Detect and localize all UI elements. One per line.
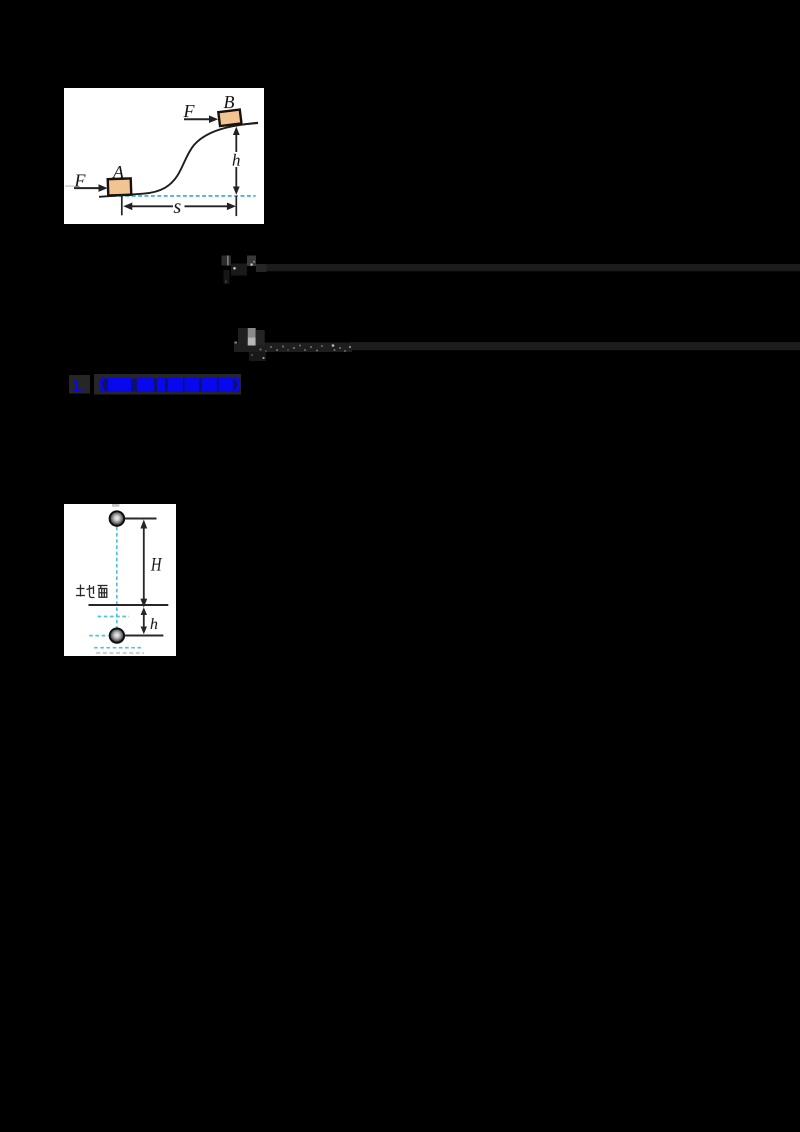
line right of ball 1: [125, 517, 157, 519]
halo box behind blue heading: [94, 374, 241, 395]
remnant speck 3: [253, 261, 255, 263]
tick below block A: [121, 194, 123, 215]
remnant speck d: [276, 349, 278, 351]
dashed horizontal line (upper, below ground): [98, 615, 130, 617]
remnant fraction block lower: [248, 337, 256, 345]
force arrow F (left, faint lead-in): [65, 185, 74, 187]
question number and blue heading row: [66, 370, 251, 398]
ball 2 (lowest position): [110, 628, 124, 642]
blue heading open paren: [101, 377, 105, 392]
svg-text:1.: 1.: [72, 379, 85, 396]
remnant speck k: [316, 350, 318, 352]
block A: [108, 178, 132, 195]
remnant tail speck: [262, 357, 264, 359]
incline extension right of block B: [242, 123, 258, 125]
remnant fraction block upper: [248, 328, 256, 337]
svg-text:F: F: [73, 170, 86, 190]
svg-text:h: h: [150, 616, 158, 633]
dashed reference line (cyan): [113, 195, 256, 197]
remnant tail speck 2: [251, 354, 253, 356]
remnant speck a: [259, 348, 261, 350]
remnant speck b: [265, 350, 267, 352]
blob 4 notch: [183, 378, 185, 392]
remnant speck o: [339, 347, 341, 349]
blue heading blob 2: [137, 378, 154, 393]
remnant speck q: [349, 346, 351, 348]
ball 1 (start position): [110, 511, 125, 526]
gray stub at top: [112, 504, 119, 507]
figure 2: ball dropped from H above ground into well of depth h: [64, 504, 176, 656]
white background panel: [64, 88, 264, 224]
dimension s arrow (right segment with arrowhead): [185, 205, 232, 207]
dimension H arrow: [143, 522, 145, 604]
remnant tail below (descender): [249, 352, 266, 361]
block B: [218, 109, 241, 126]
force arrow F (left): [74, 187, 101, 189]
white background panel: [64, 504, 176, 656]
remnant speck f: [287, 349, 289, 351]
remnant equals speck: [235, 342, 237, 344]
faint gray bottom strip: [96, 652, 144, 654]
figure 1: blocks on S-curve hill: [64, 88, 264, 224]
label 地面 (hand-drawn strokes): [76, 584, 95, 597]
dimension s arrow (left segment with arrowhead): [128, 205, 173, 207]
svg-text:A: A: [112, 162, 125, 182]
remnant smudge: fraction bar block: [222, 256, 232, 266]
remnant box right: [256, 264, 267, 272]
svg-text:B: B: [223, 92, 234, 112]
blue heading blob 3: [157, 378, 165, 393]
text band row 1: [267, 264, 800, 271]
line right of ball 2: [125, 634, 164, 636]
remnant speck m bright: [332, 344, 335, 347]
blue heading close paren: [235, 377, 239, 392]
remnant speck i: [304, 349, 306, 351]
remnant speck p: [344, 350, 346, 352]
remnant textured band under formula: [234, 343, 352, 353]
ground + S-curve path: [99, 122, 258, 196]
blue heading underlay: [100, 379, 240, 392]
remnant white speck 1: [233, 267, 236, 270]
remnant speck l: [321, 345, 323, 347]
remnant dark box right of fraction: [256, 330, 265, 345]
dashed horizontal line left of ball 2: [89, 634, 109, 636]
svg-text:h: h: [232, 150, 241, 169]
force arrow F (top): [184, 118, 211, 120]
remnant speck j: [310, 346, 312, 348]
blue heading blob 5: [202, 378, 233, 393]
remnant tail below: [224, 270, 230, 284]
blue heading blob 1: [108, 378, 131, 393]
remnant dark patch: [231, 264, 247, 276]
tick below h arrow: [235, 196, 237, 216]
dimension h arrow: [143, 610, 145, 632]
blob 5 notch: [217, 378, 219, 392]
dimension h arrow (upper segment): [235, 129, 237, 152]
dimension h arrow (lower segment): [235, 167, 237, 192]
svg-text:F: F: [182, 101, 195, 121]
text band row 2: [350, 342, 800, 350]
remnant speck h: [299, 345, 301, 347]
equation remnant row 2: [230, 324, 800, 366]
svg-text:s: s: [173, 196, 181, 218]
remnant speck c: [270, 346, 272, 348]
remnant vertical light bar: [227, 256, 228, 266]
equation remnant row 1: [215, 250, 800, 290]
remnant dark box left of fraction: [238, 328, 248, 345]
remnant speck n: [334, 349, 336, 351]
dashed vertical drop line: [116, 527, 118, 628]
remnant faint dot below: [225, 280, 227, 282]
dashed horizontal line (bottom): [94, 646, 144, 648]
halo box behind "1.": [69, 375, 90, 394]
remnant speck e: [282, 345, 284, 347]
svg-text:H: H: [150, 554, 162, 575]
ground line: [89, 604, 169, 606]
blue heading blob 4: [168, 378, 199, 393]
remnant white speck 2: [250, 263, 253, 266]
remnant speck g: [293, 347, 295, 349]
remnant gray box 2: [247, 256, 256, 267]
